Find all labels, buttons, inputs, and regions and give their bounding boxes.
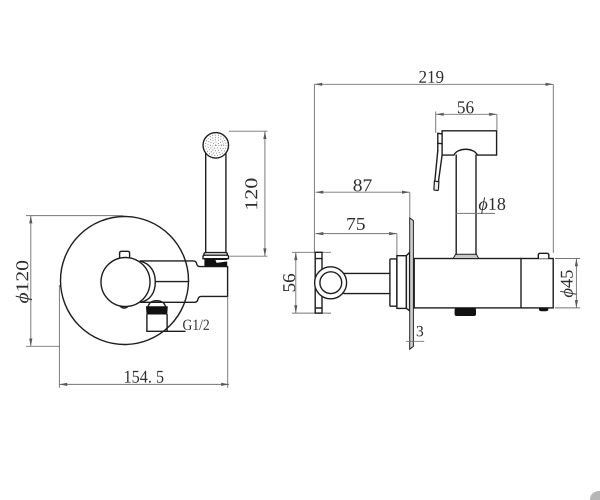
dimension 3 (plate thickness): [406, 340, 424, 342]
bracket mid edge line: [155, 281, 188, 283]
dimension 87: [316, 179, 410, 217]
wall plate (3mm disc edge): [410, 218, 414, 349]
dimension Ø45: [555, 259, 580, 308]
wand flare lip upper: [204, 253, 228, 256]
dimension 56 (head): [436, 101, 497, 133]
G1/2 outlet black band: [146, 306, 168, 314]
handle flange step 1: [390, 259, 397, 306]
dimension 219: [314, 71, 553, 253]
escutcheon plate circle Ø120: [61, 217, 189, 345]
handle knob circle: [101, 258, 150, 307]
wand flare lip lower: [203, 255, 229, 259]
wand tube base flange: [453, 254, 479, 258]
G1/2 leader line: [147, 330, 185, 332]
knob cone silhouette arc: [140, 261, 155, 302]
wand tube (side): [455, 155, 457, 254]
sprayer head face circle: [203, 133, 229, 159]
dimension Ø120: [16, 216, 124, 347]
body cap line: [520, 259, 522, 308]
spray face dotted rings: [206, 135, 227, 156]
mixer body Ø45: [414, 259, 553, 308]
holder bracket outline: [140, 261, 227, 302]
handle blade (side): [315, 252, 322, 313]
dimension 56 (handle, vertical): [283, 252, 331, 313]
trigger lever: [437, 133, 439, 150]
handle knob ring: [315, 267, 347, 299]
dimension 75: [316, 218, 397, 255]
wand seat black band: [204, 259, 227, 267]
top button: [538, 253, 549, 258]
trigger tip: [434, 181, 439, 190]
knob top tab: [120, 251, 130, 257]
flange cone to plate: [406, 252, 409, 310]
G1/2 outlet body: [146, 315, 148, 332]
knob bottom bump: [120, 306, 128, 308]
dimension 154.5: [59, 285, 229, 388]
handle stem: [344, 272, 390, 274]
corner watermark smudge: [590, 491, 600, 500]
handle flange step 2: [397, 256, 407, 309]
bottom outlet block: [455, 308, 476, 316]
bottom right plug: [539, 308, 548, 311]
G1/2 outlet dome: [148, 301, 165, 307]
dimension Ø18 leader: [456, 212, 495, 214]
wand tube (front view): [205, 153, 207, 253]
dimension 120 (wand): [229, 131, 268, 256]
G1/2 label: [183, 320, 209, 330]
sprayer head (side): [442, 131, 497, 155]
